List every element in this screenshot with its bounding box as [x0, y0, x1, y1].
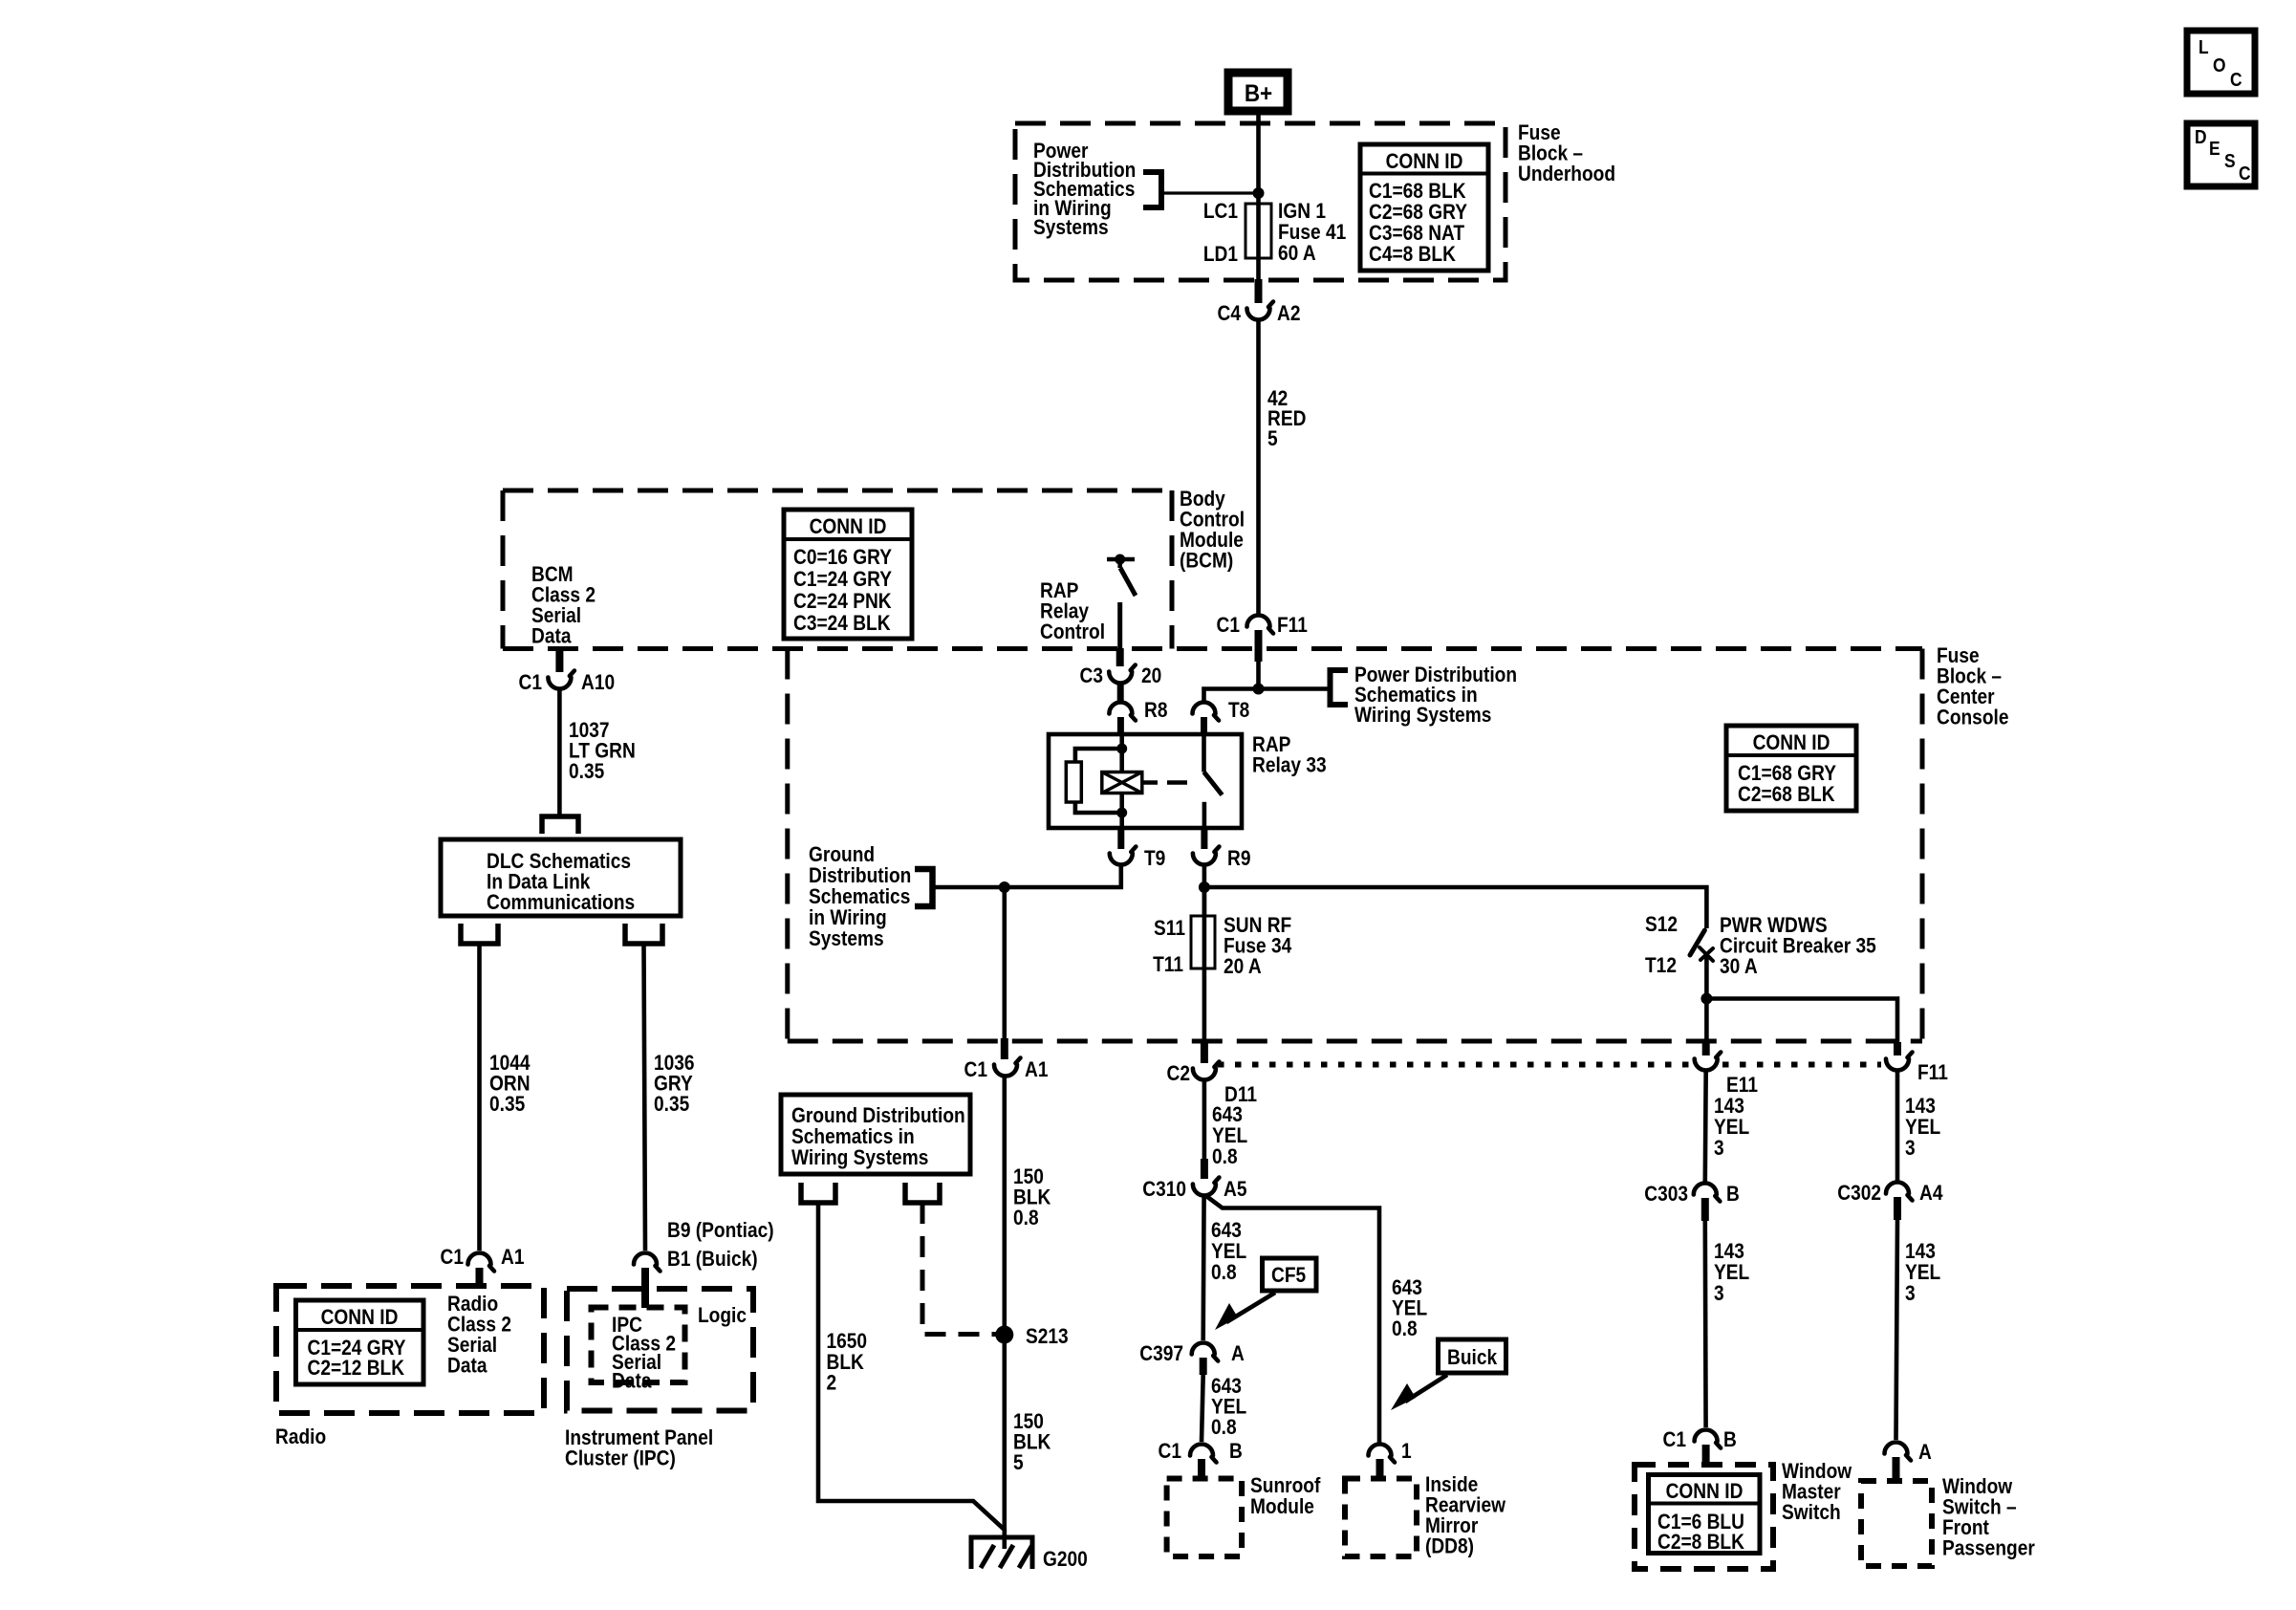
svg-text:Fuse 41: Fuse 41	[1278, 221, 1346, 245]
svg-text:Buick: Buick	[1447, 1346, 1498, 1370]
wire R8 into relay	[1117, 717, 1124, 736]
conn id table (underhood)	[1360, 144, 1488, 271]
wire R9 to S12	[1202, 865, 1207, 916]
svg-text:B9 (Pontiac): B9 (Pontiac)	[667, 1219, 774, 1243]
label Sunroof Module	[1250, 1474, 1320, 1519]
wire C2 to C310	[1202, 1080, 1207, 1159]
label Fuse Block - Underhood	[1518, 121, 1615, 186]
svg-text:C303: C303	[1644, 1183, 1688, 1207]
svg-text:O: O	[2213, 54, 2226, 76]
svg-text:A: A	[1231, 1342, 1245, 1366]
connector C303/B	[1694, 1184, 1721, 1202]
label Instrument Panel Cluster (IPC)	[565, 1426, 713, 1470]
svg-text:Wiring Systems: Wiring Systems	[1354, 704, 1491, 728]
node splice S213	[995, 1326, 1013, 1344]
svg-text:YEL: YEL	[1714, 1261, 1749, 1285]
logic box IPC inner (dashed)	[592, 1308, 685, 1383]
svg-text:Switch: Switch	[1782, 1501, 1841, 1525]
svg-text:C1: C1	[1663, 1428, 1686, 1452]
wire fuse to C2	[1202, 968, 1207, 1039]
wire stub into radio	[476, 1268, 484, 1288]
svg-text:0.8: 0.8	[1211, 1416, 1237, 1440]
wire R9 stub below relay	[1201, 828, 1207, 849]
label Fuse Block - Center Console	[1937, 644, 2008, 729]
label Radio Class 2 Serial Data	[447, 1293, 511, 1378]
node junction to T8 and power distribution ref	[1253, 684, 1265, 695]
fuse IGN 1 Fuse 41 60A	[1245, 204, 1271, 258]
svg-text:A10: A10	[581, 671, 615, 695]
svg-text:Control: Control	[1040, 620, 1105, 644]
svg-text:CONN ID: CONN ID	[1666, 1480, 1744, 1504]
svg-text:Schematics: Schematics	[809, 885, 910, 909]
wire fuse to C4 connector (stub)	[1256, 258, 1261, 281]
connector C1/A10	[548, 671, 574, 689]
wire relay internal coil feed	[1119, 734, 1124, 772]
switch BCM RAP relay driver	[1107, 559, 1136, 596]
svg-text:T8: T8	[1228, 699, 1249, 723]
module box Radio (dashed)	[276, 1286, 544, 1413]
label RAP Relay Control	[1040, 579, 1105, 644]
wire S213 to G200	[1003, 1335, 1007, 1549]
connector E11	[1695, 1053, 1722, 1071]
svg-text:C2=12 BLK: C2=12 BLK	[308, 1357, 405, 1381]
svg-text:143: 143	[1714, 1240, 1744, 1264]
svg-text:5: 5	[1267, 427, 1278, 451]
connector C3/20	[1109, 665, 1136, 684]
wire label 1036 GRY 0.35	[654, 1052, 695, 1117]
connector T9	[1110, 847, 1137, 865]
wire junction to breaker top contact	[1204, 887, 1707, 928]
svg-text:Data: Data	[447, 1354, 487, 1378]
label Window Master Switch	[1782, 1460, 1852, 1525]
wire label 42 RED 5	[1267, 387, 1306, 451]
svg-text:A2: A2	[1277, 302, 1300, 326]
connector F11 (window)	[1886, 1053, 1913, 1071]
label box CF5	[1263, 1258, 1317, 1291]
breaker element x-mark T12	[1700, 947, 1713, 961]
fuse SUN RF Fuse 34 20A	[1191, 916, 1215, 968]
svg-text:F11: F11	[1277, 614, 1308, 638]
wire label 143 YEL 3 (C302)	[1905, 1240, 1940, 1306]
svg-text:Schematics in: Schematics in	[791, 1125, 915, 1149]
terminal cup below ground note (1650 leg)	[801, 1183, 835, 1203]
svg-text:B1 (Buick): B1 (Buick)	[667, 1248, 758, 1272]
connector C1/A1 (radio)	[468, 1253, 495, 1272]
svg-text:C2=68 GRY: C2=68 GRY	[1369, 201, 1467, 225]
svg-text:C397: C397	[1139, 1342, 1183, 1366]
terminal cup below DLC (IPC leg)	[625, 924, 662, 944]
svg-text:B: B	[1726, 1183, 1740, 1207]
svg-text:S213: S213	[1026, 1325, 1069, 1349]
wire B+ to fuse	[1256, 111, 1261, 204]
svg-text:C2: C2	[1167, 1062, 1190, 1086]
svg-text:C3: C3	[1080, 664, 1103, 688]
svg-text:143: 143	[1905, 1095, 1936, 1119]
svg-text:A1: A1	[1025, 1058, 1048, 1082]
svg-text:20 A: 20 A	[1224, 955, 1262, 979]
wire BCM A10 stub	[555, 651, 563, 672]
svg-text:S12: S12	[1645, 913, 1678, 937]
label Ground Distribution Schematics in Wiring Systems (console)	[809, 843, 911, 951]
wire stub into sunroof module	[1198, 1459, 1205, 1479]
wire label 1037 LT GRN 0.35	[569, 719, 636, 784]
svg-text:0.35: 0.35	[489, 1093, 525, 1117]
svg-text:C1=24 GRY: C1=24 GRY	[793, 568, 892, 592]
connector A (passenger switch)	[1885, 1443, 1912, 1461]
node junction R9	[1199, 881, 1210, 893]
svg-text:3: 3	[1714, 1137, 1724, 1161]
label Body Control Module (BCM)	[1180, 488, 1245, 573]
svg-text:20: 20	[1141, 664, 1161, 688]
svg-text:C2=8 BLK: C2=8 BLK	[1657, 1531, 1744, 1555]
svg-text:C1: C1	[441, 1246, 464, 1270]
svg-text:Logic: Logic	[698, 1304, 747, 1328]
svg-text:R8: R8	[1144, 699, 1167, 723]
wire A10 to DLC	[557, 689, 562, 816]
module box Instrument Panel Cluster (dashed)	[567, 1289, 753, 1411]
svg-text:C4: C4	[1218, 302, 1242, 326]
node junction on B+ feed	[1253, 187, 1265, 199]
svg-text:C1: C1	[964, 1058, 987, 1082]
wire bracket to B+ feed	[1161, 191, 1259, 194]
resistor (relay suppression)	[1066, 762, 1081, 802]
svg-text:Data: Data	[531, 624, 572, 648]
svg-text:Wiring Systems: Wiring Systems	[791, 1146, 928, 1170]
wire stub into IPC	[641, 1268, 649, 1308]
svg-text:5: 5	[1013, 1451, 1024, 1475]
conn id table (console)	[1726, 726, 1856, 811]
svg-text:Systems: Systems	[809, 927, 884, 951]
svg-text:643: 643	[1212, 1103, 1243, 1127]
connector C1/A1	[994, 1058, 1021, 1077]
svg-text:Sunroof: Sunroof	[1250, 1474, 1320, 1498]
arrow CF5 to wire	[1215, 1293, 1275, 1330]
svg-text:B: B	[1723, 1428, 1737, 1452]
svg-text:Communications: Communications	[487, 891, 635, 915]
svg-text:(DD8): (DD8)	[1425, 1534, 1474, 1558]
wire dotted connector row E11 to F11	[1722, 1062, 1881, 1068]
svg-text:C: C	[2230, 69, 2242, 90]
svg-text:0.35: 0.35	[569, 760, 604, 784]
shared dashed line BCM bottom / console top	[503, 646, 1922, 651]
node B+ terminal	[1228, 73, 1288, 111]
wire label 643 YEL 0.8 (C310 to C397)	[1211, 1219, 1246, 1285]
connector C2/D11	[1193, 1062, 1220, 1080]
svg-text:CONN ID: CONN ID	[321, 1306, 399, 1330]
svg-text:C1=68 BLK: C1=68 BLK	[1369, 180, 1466, 204]
wire ground branch down to A1	[1003, 887, 1007, 1038]
arrow Buick to wire	[1391, 1375, 1447, 1410]
node coil top junction	[1116, 744, 1127, 754]
svg-text:(BCM): (BCM)	[1180, 549, 1233, 573]
svg-text:in Wiring: in Wiring	[809, 906, 887, 930]
connector 1 (mirror)	[1369, 1445, 1396, 1463]
wire resistor branch bottom	[1075, 802, 1122, 813]
svg-text:0.35: 0.35	[654, 1093, 689, 1117]
svg-text:60 A: 60 A	[1278, 242, 1316, 266]
label Inside Rearview Mirror (DD8)	[1425, 1473, 1506, 1558]
terminal cup below ground note (S213 leg)	[905, 1183, 940, 1203]
note box Ground Distribution Schematics in Wiring Systems	[781, 1095, 970, 1174]
wire E11 stub	[1702, 1042, 1710, 1055]
svg-text:S11: S11	[1154, 917, 1185, 941]
connector C302/A4	[1886, 1183, 1913, 1201]
wire T9 stub below relay	[1117, 828, 1124, 849]
connector T8	[1193, 703, 1220, 721]
svg-text:YEL: YEL	[1211, 1240, 1246, 1264]
callout bracket (ground distribution console)	[915, 869, 933, 906]
svg-text:Distribution: Distribution	[809, 864, 911, 888]
wire DLC to IPC B1	[644, 944, 646, 1251]
svg-text:T12: T12	[1645, 954, 1677, 978]
svg-text:IGN 1: IGN 1	[1278, 200, 1326, 224]
wire T9 down and left to bracket	[933, 865, 1121, 887]
svg-text:2: 2	[827, 1371, 837, 1395]
wire label 143 YEL 3 (C303)	[1714, 1240, 1749, 1306]
wire 1650 BLK 2 to ground	[818, 1203, 1005, 1536]
svg-text:Ground: Ground	[809, 843, 875, 867]
svg-text:C1: C1	[1217, 614, 1240, 638]
module box Sunroof Module (dashed)	[1167, 1479, 1243, 1557]
wire coil to switch dash link	[1142, 780, 1158, 785]
wire label 143 YEL 3 (E11)	[1714, 1095, 1749, 1161]
connector C397/A	[1192, 1343, 1219, 1361]
svg-text:Console: Console	[1937, 706, 2008, 729]
connector C4/A2	[1247, 302, 1274, 320]
module box Window Master Switch (dashed)	[1635, 1465, 1773, 1569]
label PWR WDWS Circuit Breaker 35 30 A	[1720, 914, 1876, 979]
value label IGN 1 Fuse 41 60 A	[1278, 200, 1346, 266]
wire A1 to S213	[1003, 1077, 1007, 1335]
svg-text:YEL: YEL	[1905, 1116, 1940, 1140]
label Power Distribution Schematics in Wiring Systems (console)	[1354, 664, 1517, 728]
wire dashed reference to S213	[922, 1203, 996, 1335]
svg-text:1650: 1650	[827, 1330, 868, 1354]
connector C1/B (master switch)	[1695, 1430, 1722, 1448]
value label SUN RF Fuse 34 20 A	[1224, 914, 1292, 979]
svg-text:A: A	[1918, 1441, 1932, 1465]
svg-text:143: 143	[1714, 1095, 1744, 1119]
svg-text:LD1: LD1	[1203, 243, 1238, 267]
svg-text:B: B	[1229, 1440, 1243, 1464]
wire label 150 BLK 0.8	[1013, 1165, 1051, 1230]
wire label 150 BLK 5	[1013, 1410, 1051, 1475]
svg-text:CONN ID: CONN ID	[810, 515, 887, 539]
ground G200	[971, 1537, 1032, 1569]
svg-text:L: L	[2199, 36, 2209, 57]
node junction T12 split	[1700, 993, 1712, 1005]
connector C1/B (sunroof)	[1190, 1445, 1217, 1463]
wire label 1650 BLK 2	[827, 1330, 868, 1395]
wire resistor branch top	[1075, 749, 1122, 762]
svg-text:Passenger: Passenger	[1942, 1536, 2035, 1560]
wire stub below C302	[1894, 1197, 1901, 1220]
module box Fuse Block - Center Console (dashed)	[788, 649, 1922, 1042]
module box Body Control Module BCM (dashed)	[503, 490, 1172, 649]
module box Fuse Block - Underhood (dashed)	[1015, 123, 1505, 280]
label box Buick	[1439, 1339, 1506, 1373]
wire stub below C303	[1701, 1198, 1709, 1221]
svg-text:T11: T11	[1153, 953, 1183, 977]
wire label 143 YEL 3 (F11)	[1905, 1095, 1940, 1161]
module box Inside Rearview Mirror (dashed)	[1345, 1479, 1417, 1557]
svg-text:C3=24 BLK: C3=24 BLK	[793, 612, 891, 636]
wire label 643 YEL 0.8 (C397 to sunroof)	[1211, 1375, 1246, 1440]
node junction S-ground	[999, 881, 1010, 893]
svg-text:0.8: 0.8	[1211, 1261, 1237, 1285]
wire junction to T8 elbow	[1204, 689, 1330, 702]
wire C302 to passenger switch	[1896, 1220, 1898, 1440]
svg-text:3: 3	[1905, 1137, 1916, 1161]
conn id table (BCM)	[784, 510, 912, 639]
svg-text:R9: R9	[1227, 847, 1250, 871]
svg-text:A5: A5	[1224, 1178, 1246, 1202]
node dot on driver bar	[1115, 555, 1125, 565]
connector C310/A5	[1193, 1178, 1220, 1196]
conn id table (radio)	[296, 1300, 424, 1384]
label Window Switch - Front Passenger	[1942, 1475, 2035, 1560]
wire 42 RED 5	[1256, 320, 1261, 616]
terminal cap into DLC note	[542, 816, 578, 834]
wire label 643 YEL 0.8 (C2 to C310)	[1212, 1103, 1247, 1169]
svg-text:D: D	[2195, 126, 2207, 147]
svg-text:143: 143	[1905, 1240, 1936, 1264]
svg-text:3: 3	[1905, 1282, 1916, 1306]
svg-text:C302: C302	[1837, 1182, 1881, 1206]
svg-text:C4=8 BLK: C4=8 BLK	[1369, 243, 1456, 267]
callout bracket (underhood power distribution)	[1143, 172, 1161, 207]
wire stub below C1/F11 through console top	[1255, 630, 1263, 662]
svg-text:S: S	[2224, 150, 2236, 171]
wire stub into mirror	[1376, 1459, 1384, 1479]
svg-text:0.8: 0.8	[1212, 1145, 1238, 1169]
svg-text:Systems: Systems	[1033, 216, 1109, 240]
wire C303 to master switch	[1703, 1221, 1708, 1427]
terminal cup below DLC (radio leg)	[461, 924, 498, 944]
wire C397 to sunroof C1/B	[1202, 1375, 1203, 1442]
svg-text:Cluster (IPC): Cluster (IPC)	[565, 1447, 676, 1470]
svg-text:1: 1	[1401, 1440, 1412, 1464]
LOC tab box	[2187, 31, 2255, 94]
svg-text:C3=68 NAT: C3=68 NAT	[1369, 222, 1464, 246]
wire R9 junction to fuse	[1202, 887, 1207, 916]
svg-text:C0=16 GRY: C0=16 GRY	[793, 546, 892, 570]
svg-text:C310: C310	[1142, 1178, 1186, 1202]
wire stub into master switch	[1702, 1445, 1710, 1465]
svg-text:Underhood: Underhood	[1518, 163, 1615, 186]
svg-text:Ground Distribution: Ground Distribution	[791, 1104, 965, 1128]
wire coil bottom to relay pin	[1119, 794, 1124, 829]
wire label 1044 ORN 0.35	[489, 1052, 531, 1117]
relay coil (box with X)	[1102, 772, 1142, 794]
svg-text:Radio: Radio	[275, 1425, 326, 1449]
svg-text:30 A: 30 A	[1720, 955, 1758, 979]
label RAP Relay 33	[1252, 733, 1327, 777]
svg-text:T9: T9	[1144, 847, 1165, 871]
svg-text:A4: A4	[1919, 1182, 1943, 1206]
svg-text:0.8: 0.8	[1392, 1317, 1418, 1341]
svg-text:LC1: LC1	[1203, 200, 1238, 224]
wire F11 to C302	[1895, 1071, 1900, 1181]
svg-text:E: E	[2209, 138, 2220, 159]
svg-text:A1: A1	[501, 1246, 524, 1270]
svg-text:C: C	[2239, 163, 2251, 184]
switch breaker blade S12	[1690, 930, 1704, 955]
svg-text:CONN ID: CONN ID	[1753, 731, 1830, 755]
svg-text:YEL: YEL	[1905, 1261, 1940, 1285]
label IPC Class 2 Serial Data	[612, 1314, 676, 1393]
wire branch C310 to mirror feed	[1206, 1196, 1379, 1446]
connector C1/F11 (BCM feed)	[1247, 616, 1274, 634]
svg-text:3: 3	[1714, 1282, 1724, 1306]
wire DLC to radio C1/A1	[477, 944, 482, 1251]
callout bracket (console power distribution)	[1331, 670, 1349, 705]
svg-text:Data: Data	[612, 1369, 652, 1393]
wire junction to F11 window feed	[1706, 999, 1897, 1043]
node coil bottom junction	[1116, 808, 1127, 818]
wire T8 into relay	[1201, 717, 1207, 736]
label BCM Class 2 Serial Data	[531, 563, 596, 648]
wire stub below C397	[1200, 1358, 1207, 1375]
svg-text:E11: E11	[1726, 1074, 1758, 1098]
wire C310 down to C397	[1201, 1196, 1206, 1340]
module box Window Switch Front Passenger (dashed)	[1861, 1481, 1932, 1566]
wire F11 stub	[1894, 1042, 1901, 1055]
label Power Distribution Schematics in Wiring Systems (underhood)	[1033, 140, 1136, 240]
wire C3 to R8 (stub)	[1117, 684, 1124, 704]
svg-text:G200: G200	[1043, 1548, 1088, 1572]
connector R8	[1109, 703, 1136, 721]
svg-text:Module: Module	[1250, 1495, 1314, 1519]
svg-text:CF5: CF5	[1271, 1264, 1306, 1288]
svg-text:F11: F11	[1917, 1061, 1948, 1085]
wire stub into passenger switch	[1893, 1457, 1900, 1481]
note box DLC Schematics In Data Link Communications	[441, 839, 681, 916]
svg-text:C1: C1	[1159, 1440, 1181, 1464]
wire E11 to C303	[1703, 1071, 1708, 1182]
svg-text:CONN ID: CONN ID	[1386, 150, 1463, 174]
svg-text:C2=24 PNK: C2=24 PNK	[793, 590, 892, 614]
wire T12 down	[1704, 957, 1709, 1042]
connector B1 (IPC)	[634, 1253, 661, 1272]
svg-text:YEL: YEL	[1212, 1124, 1247, 1148]
svg-text:643: 643	[1211, 1219, 1242, 1243]
wire RAP relay control to C3	[1117, 602, 1122, 648]
svg-text:YEL: YEL	[1714, 1116, 1749, 1140]
DESC tab box	[2187, 123, 2255, 186]
relay K33 box	[1049, 734, 1242, 828]
svg-text:0.8: 0.8	[1013, 1207, 1039, 1230]
wire dotted connector row C2 to E11	[1218, 1062, 1690, 1068]
conn id table (master switch)	[1649, 1475, 1761, 1555]
switch relay contact	[1204, 734, 1223, 828]
svg-text:B+: B+	[1245, 80, 1272, 107]
svg-text:C1: C1	[519, 671, 542, 695]
wire label 643 YEL 0.8 (mirror branch)	[1392, 1276, 1427, 1341]
svg-text:Relay 33: Relay 33	[1252, 753, 1327, 777]
svg-text:C1=68 GRY: C1=68 GRY	[1738, 762, 1836, 786]
connector R9	[1193, 847, 1220, 865]
svg-text:C2=68 BLK: C2=68 BLK	[1738, 783, 1835, 807]
